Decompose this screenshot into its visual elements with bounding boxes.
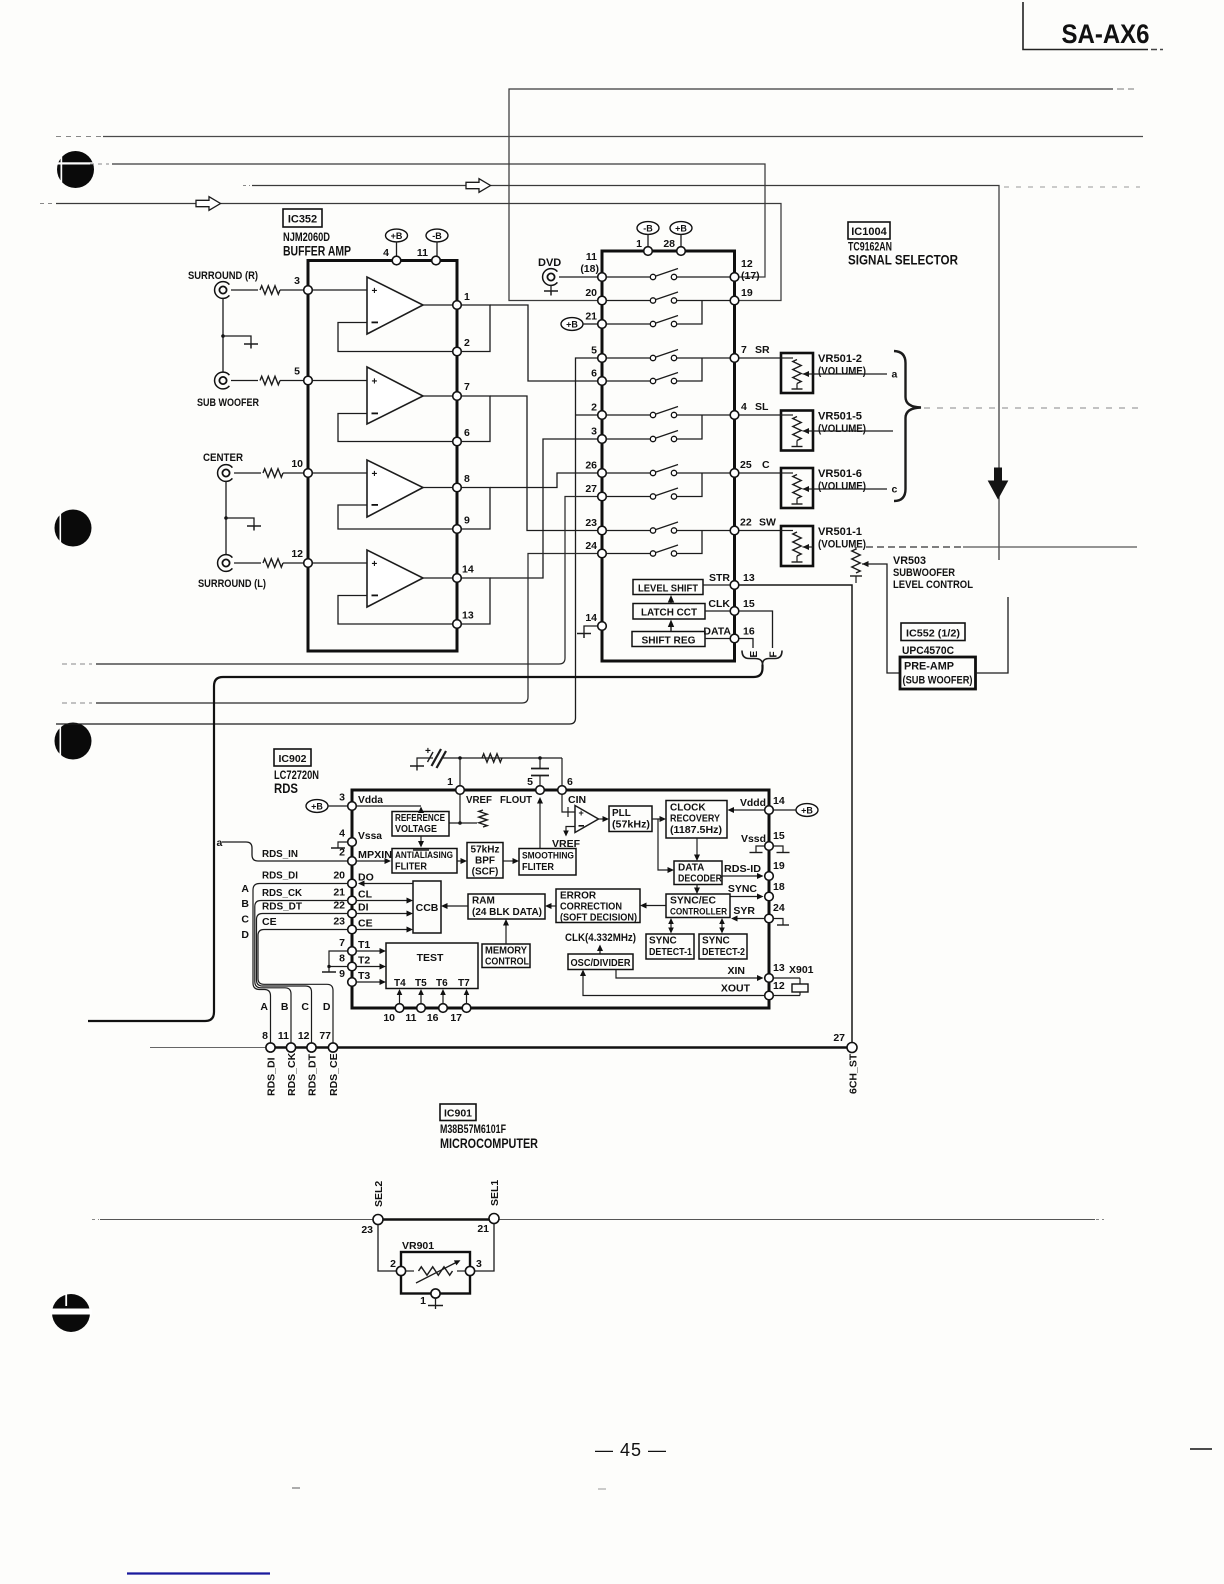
IC1004 right pin 19 [730, 287, 753, 305]
svg-text:1: 1 [636, 238, 642, 250]
SMOOTHING FLITER box [519, 849, 576, 876]
wire buffer pin7 to IC1004 pin 23 [490, 396, 598, 531]
svg-text:FLOUT: FLOUT [500, 794, 533, 806]
dashed net line from brace [924, 407, 1140, 409]
wire output U1b to pin [423, 395, 453, 397]
IC1004 pin 28 [663, 238, 685, 255]
wire bundle B RDS_CK [255, 901, 348, 1044]
svg-text:14: 14 [773, 795, 785, 807]
wire resistor to IC352 pin 10 [283, 472, 304, 474]
CCB box [413, 881, 441, 933]
arrow sync ec to error correction [640, 903, 666, 909]
IC1004 left pin 26 [585, 460, 606, 478]
IC902 pin 1 VREF [447, 776, 492, 806]
svg-text:7: 7 [339, 937, 345, 949]
label VR503 SUBWOOFER LEVEL CONTROL [893, 555, 973, 591]
CLOCK RECOVERY box [666, 801, 727, 839]
node labels A B C D upper [241, 883, 249, 941]
IC902 pin 4 Vssa with ground [331, 828, 382, 849]
svg-text:(VOLUME): (VOLUME) [818, 539, 866, 551]
svg-text:VR501-1: VR501-1 [818, 526, 862, 538]
svg-text:RDS_CK: RDS_CK [286, 1052, 298, 1096]
wire SURROUND R to pin 3 [231, 289, 258, 291]
svg-text:RDS_DT: RDS_DT [307, 1053, 319, 1096]
switch row pin 26 inside IC1004 [607, 465, 731, 476]
svg-text:BPF: BPF [475, 856, 495, 867]
wire SURROUND L to pin 12 [234, 562, 261, 564]
svg-text:DECODER: DECODER [678, 874, 723, 885]
arrow memory control to RAM [503, 919, 509, 944]
svg-text:24: 24 [773, 902, 785, 914]
svg-text:CIN: CIN [568, 794, 586, 806]
bus pin 27 6CH_ST [833, 1032, 859, 1094]
svg-text:24: 24 [585, 540, 597, 552]
svg-text:SURROUND (L): SURROUND (L) [198, 578, 266, 590]
IC902 pin 8 T2 [339, 953, 386, 971]
svg-text:C: C [241, 914, 249, 926]
svg-text:21: 21 [333, 887, 345, 899]
wire wiper VR501-6 [813, 488, 887, 490]
svg-text:20: 20 [333, 870, 345, 882]
svg-text:6: 6 [464, 427, 470, 439]
svg-text:77: 77 [319, 1030, 331, 1042]
IC1004 left pin 6 [591, 368, 606, 386]
thick microcomputer bus wire [266, 1046, 848, 1049]
svg-text:+: + [372, 559, 378, 570]
wire pin 23 down to VR901 pin 2 [378, 1225, 397, 1272]
bus pin 8 [262, 1030, 277, 1096]
svg-text:(SOFT DECISION): (SOFT DECISION) [560, 913, 637, 924]
registration mark mid-left 2 [55, 723, 92, 760]
SHIFT REG box [632, 632, 705, 647]
svg-text:13: 13 [743, 572, 755, 584]
svg-text:(18): (18) [580, 263, 599, 275]
volume pot VR501-1 [739, 526, 813, 566]
svg-text:T5: T5 [415, 978, 427, 989]
svg-text:DVD: DVD [538, 257, 561, 269]
registration mark top-left [56, 151, 95, 188]
blue underline mark [127, 1572, 270, 1574]
svg-text:STR: STR [709, 572, 730, 584]
svg-text:25: 25 [740, 459, 752, 471]
svg-text:DATA: DATA [678, 863, 704, 874]
wire feedback U1b minus input [338, 414, 453, 442]
ERROR CORRECTION box [556, 889, 640, 924]
svg-text:(17): (17) [741, 270, 760, 282]
switch row pin 23 inside IC1004 [607, 522, 731, 533]
connector SUB WOOFER [197, 372, 259, 409]
power +B at IC1004 pin 28 [670, 222, 692, 247]
arrow LATCH CCT to LEVEL SHIFT [668, 595, 674, 604]
switch row pin 3 inside IC1004 [607, 415, 703, 442]
IC352 pin 6 [453, 427, 470, 446]
arrow MPXIN to antialiasing filter [357, 858, 392, 864]
svg-text:-B: -B [432, 231, 442, 241]
svg-text:TEST: TEST [417, 952, 444, 964]
svg-text:(57kHz): (57kHz) [612, 820, 650, 831]
wire wiper VR501-1 [866, 546, 963, 548]
VR901 variable resistor [406, 1260, 466, 1283]
svg-text:8: 8 [262, 1030, 268, 1042]
brace joining E and F [742, 651, 782, 665]
svg-text:DO: DO [358, 872, 374, 884]
wire bracket pin14-pin13 [462, 578, 491, 624]
svg-text:ERROR: ERROR [560, 891, 597, 902]
svg-text:VR501-6: VR501-6 [818, 468, 862, 480]
svg-text:19: 19 [773, 860, 785, 872]
wire output U1d to pin [423, 577, 453, 579]
svg-text:VOLTAGE: VOLTAGE [395, 824, 437, 835]
arrow SHIFT REG to LATCH CCT [668, 620, 674, 632]
ground for VREF capacitor [410, 758, 428, 771]
wire top bus line 4 with corner down to sub woofer feed [243, 186, 1140, 561]
ground node between CENTER and SURROUND L [224, 481, 261, 555]
svg-text:T7: T7 [458, 978, 470, 989]
registration mark bottom-left [50, 1292, 92, 1332]
svg-text:15: 15 [773, 830, 785, 842]
VR901 pin 1 with ground [420, 1289, 443, 1309]
IC901 label box [440, 1104, 476, 1121]
svg-text:SEL1: SEL1 [489, 1180, 501, 1206]
svg-text:5: 5 [527, 776, 533, 788]
electrolytic capacitor at VREF [425, 746, 460, 768]
svg-text:NJM2060D: NJM2060D [283, 232, 330, 244]
arrow Vddd to clock recovery [728, 807, 765, 813]
wire Vdda to reference voltage arrow [357, 806, 425, 813]
svg-text:+: + [372, 377, 378, 388]
svg-text:9: 9 [464, 515, 470, 527]
svg-text:+: + [425, 746, 431, 757]
svg-text:FLITER: FLITER [395, 862, 428, 873]
svg-text:RAM: RAM [472, 896, 495, 907]
svg-text:T6: T6 [436, 978, 448, 989]
IC1004 left pin 20 [585, 287, 606, 305]
OSC/DIVIDER box [568, 954, 633, 970]
arrow OSC to CLK label [597, 945, 603, 955]
svg-text:CLOCK: CLOCK [670, 803, 706, 814]
capacitor FLOUT [531, 758, 562, 786]
svg-text:C: C [301, 1001, 309, 1013]
IC1004 label box [848, 222, 890, 239]
svg-text:14: 14 [585, 612, 597, 624]
brace group a b c nets [894, 351, 921, 501]
wire IC1004 pin 5 / pin 2 tie down to left bus [56, 358, 598, 724]
wire bundle C RDS_DT [257, 914, 348, 1044]
PRE-AMP SUB WOOFER box [900, 657, 976, 689]
wire CL to CCB [357, 898, 414, 904]
IC902 pin 6 CIN [558, 776, 586, 806]
svg-text:MICROCOMPUTER: MICROCOMPUTER [440, 1136, 538, 1151]
wire wiper VR501-2 [813, 373, 887, 375]
svg-text:VR501-2: VR501-2 [818, 353, 862, 365]
LATCH CCT box [633, 604, 705, 620]
IC1004 left pin 21 [585, 311, 606, 329]
IC902 pin 15 Vssd with grounds [741, 830, 790, 853]
svg-text:IC902: IC902 [278, 753, 306, 765]
svg-text:2: 2 [591, 402, 597, 414]
IC902 pin 21 CL [333, 887, 372, 905]
label VR501-6 (VOLUME) [818, 468, 866, 493]
IC352 pin 2 [453, 337, 470, 356]
svg-text:X901: X901 [789, 964, 814, 976]
switch row pin 27 inside IC1004 [607, 473, 703, 499]
svg-text:4: 4 [741, 401, 747, 413]
IC1004 right pin 16 DATA [703, 626, 754, 643]
SYNC DETECT-1 box [646, 934, 694, 959]
resistor input SUB WOOFER [260, 376, 280, 384]
svg-text:T3: T3 [358, 970, 370, 982]
IC352 pin 10 [291, 458, 312, 477]
IC352 label box [283, 209, 322, 227]
wire bracket pin7-pin6 [462, 396, 491, 442]
svg-text:14: 14 [462, 564, 474, 576]
op-amp U1d of IC352 [367, 550, 423, 607]
IC901 pin 21 SEL1 [477, 1180, 501, 1235]
IC902 pin 13 XIN and wire from OSC [616, 962, 785, 982]
IC902 bottom pin 10 [383, 989, 403, 1024]
stray scan marks [292, 1449, 1212, 1489]
svg-text:3: 3 [591, 426, 597, 438]
arrow reference voltage to ground [413, 836, 429, 850]
volume pot VR501-2 [739, 353, 813, 393]
svg-text:PRE-AMP: PRE-AMP [904, 661, 954, 673]
svg-text:6: 6 [591, 368, 597, 380]
wire buffer pin1 to IC1004 pin 6 [490, 305, 598, 381]
svg-text:T1: T1 [358, 939, 370, 951]
wire feedback U1d minus input [338, 596, 453, 625]
label VR501-2 (VOLUME) [818, 353, 866, 378]
svg-text:Vdda: Vdda [358, 794, 383, 806]
IC902 pin 18 SYNC [728, 881, 785, 901]
svg-text:17: 17 [450, 1012, 462, 1024]
svg-text:RDS-ID: RDS-ID [724, 863, 761, 875]
IC902 bottom pin 17 [450, 989, 470, 1024]
svg-text:5: 5 [294, 366, 300, 378]
IC902 pin 14 Vddd with +B [740, 795, 818, 816]
switch row pin 11 inside IC1004 [607, 269, 731, 280]
wire top bus line 1 to IC1004 pin 20 [509, 89, 1134, 301]
comparator minus input VREF [552, 827, 581, 851]
svg-text:SW: SW [759, 517, 776, 529]
IC1004 pin 1 [636, 238, 652, 255]
svg-text:A: A [241, 883, 249, 895]
wire CE to CCB [357, 927, 414, 933]
svg-text:(SUB WOOFER): (SUB WOOFER) [903, 675, 973, 687]
IC352 pin 12 [291, 548, 312, 567]
IC352 pin 13 [453, 610, 474, 629]
svg-text:8: 8 [464, 473, 470, 485]
svg-text:28: 28 [663, 238, 675, 250]
svg-text:RDS_DT: RDS_DT [262, 901, 303, 913]
wire VREF top node [458, 756, 542, 785]
svg-text:-B: -B [643, 223, 653, 233]
volume pot VR501-5 [739, 411, 813, 451]
svg-text:RDS_IN: RDS_IN [262, 848, 298, 860]
labels RDS_DI RDS_CK RDS_DT CE left [262, 870, 303, 929]
resistor input CENTER [263, 469, 283, 477]
wire into PRE-AMP right side [976, 597, 1009, 673]
svg-text:RDS: RDS [274, 780, 298, 796]
switch row pin 6 inside IC1004 [607, 358, 703, 384]
svg-text:4: 4 [339, 828, 345, 840]
svg-text:Vddd: Vddd [740, 797, 766, 809]
volume pot VR501-6 [739, 468, 813, 508]
switch row pin 24 inside IC1004 [607, 531, 703, 557]
svg-text:SUBWOOFER: SUBWOOFER [893, 567, 955, 579]
VR901 pin 3 [465, 1258, 482, 1276]
svg-text:CLK: CLK [708, 598, 730, 610]
IC901 pin 23 SEL2 [361, 1181, 385, 1236]
connector CENTER [203, 452, 243, 481]
svg-text:SYR: SYR [733, 905, 755, 917]
IC552 label box [901, 623, 965, 641]
svg-text:9: 9 [339, 968, 345, 980]
ground node between SURROUND R and SUB WOOFER [221, 298, 258, 372]
svg-text:D: D [241, 929, 249, 941]
signal flow arrow on line 5 [196, 197, 221, 211]
svg-text:2: 2 [464, 337, 470, 349]
svg-text:21: 21 [585, 311, 597, 323]
wire resistor to IC352 pin 12 [283, 562, 304, 564]
svg-text:IC552 (1/2): IC552 (1/2) [906, 628, 960, 640]
wire DVD to IC1004 pin 11 [559, 276, 598, 278]
big down arrow on sub woofer feed line [989, 468, 1008, 499]
arrow comparator to PLL [599, 816, 610, 822]
svg-text:SMOOTHING: SMOOTHING [522, 851, 574, 862]
comparator op-amp in IC902 [575, 806, 599, 833]
thick wire between pin 23 and pin 21 [382, 1218, 490, 1220]
svg-text:T2: T2 [358, 955, 370, 967]
svg-text:11: 11 [586, 251, 597, 263]
IC902 pin 12 XOUT and wire to OSC [580, 970, 800, 1000]
wire pin 13 STR down to microcomputer bus pin 27 [739, 585, 852, 1043]
IC352 body box [308, 261, 457, 652]
svg-text:CLK(4.332MHz): CLK(4.332MHz) [565, 932, 636, 944]
svg-text:DI: DI [358, 902, 369, 914]
svg-text:REFERENCE: REFERENCE [395, 813, 445, 824]
svg-text:A: A [260, 1001, 268, 1013]
switch row pin 21 inside IC1004 [607, 301, 703, 327]
svg-text:6CH_ST: 6CH_ST [848, 1053, 860, 1094]
wire SUB WOOFER to pin 5 [231, 380, 258, 382]
wire pin1 internal vref node [449, 795, 477, 825]
svg-text:12: 12 [298, 1030, 310, 1042]
svg-text:12: 12 [291, 548, 303, 560]
VR901 box [401, 1240, 470, 1294]
wire + input U1c [313, 472, 368, 474]
IC1004 right pin 4 SL [730, 401, 769, 419]
IC902 bottom pin 11 [405, 989, 425, 1024]
svg-text:IC352: IC352 [288, 214, 317, 226]
svg-text:20: 20 [585, 287, 597, 299]
svg-text:RECOVERY: RECOVERY [670, 814, 720, 825]
svg-text:E: E [749, 651, 760, 658]
svg-text:IC901: IC901 [444, 1108, 472, 1120]
svg-text:RDS_CK: RDS_CK [262, 887, 302, 899]
op-amp U1a of IC352 [367, 277, 423, 334]
IC1004 left pin 27 [585, 483, 606, 501]
svg-text:RDS_DI: RDS_DI [266, 1057, 278, 1096]
svg-text:+B: +B [566, 319, 578, 329]
svg-text:SR: SR [755, 344, 770, 356]
svg-text:7: 7 [464, 381, 470, 393]
title frame [1023, 2, 1163, 50]
wire thin lead-in of microcomputer bus [150, 1047, 266, 1049]
IC902 pin 9 T3 [339, 968, 386, 986]
svg-text:3: 3 [339, 792, 345, 804]
RAM box [468, 894, 545, 919]
svg-text:PLL: PLL [612, 808, 631, 819]
svg-text:+B: +B [801, 805, 813, 815]
svg-text:6: 6 [567, 776, 573, 788]
wire buffer pin14 to IC1004 pin 3 [490, 439, 598, 578]
IC1004 left pin 5 [591, 345, 606, 363]
IC1004 left pin 11 [580, 251, 606, 281]
resistor VREF to FLOUT [482, 754, 502, 762]
arrow data decoder down from clock recovery [694, 838, 700, 861]
power +B at IC352 pin 4 [386, 229, 408, 256]
SYNC DETECT-2 box [699, 934, 747, 959]
svg-text:18: 18 [773, 881, 785, 893]
IC1004 right pin 13 STR [709, 572, 755, 589]
svg-text:DATA: DATA [703, 626, 731, 638]
arrow antialiasing to BPF [457, 858, 467, 864]
svg-text:27: 27 [833, 1032, 845, 1044]
svg-text:M38B57M6101F: M38B57M6101F [440, 1124, 506, 1136]
57kHz BPF box [467, 843, 503, 879]
IC352 output pin 8 [453, 473, 470, 492]
long horizontal wire through SEL pins [92, 1219, 1104, 1221]
svg-text:(VOLUME): (VOLUME) [818, 481, 866, 493]
IC1004 body box [602, 251, 735, 661]
svg-text:SURROUND (R): SURROUND (R) [188, 270, 258, 282]
IC902 pin 19 RDS-ID [722, 860, 785, 880]
IC352 output pin 7 [453, 381, 470, 400]
resistor input SURROUND R [260, 286, 280, 294]
svg-text:19: 19 [741, 287, 753, 299]
svg-text:23: 23 [585, 517, 597, 529]
VR901 pin 2 [390, 1258, 405, 1276]
op-amp U1c of IC352 [367, 460, 423, 517]
IC1004 right pin 12 (17) [730, 258, 759, 282]
svg-text:CENTER: CENTER [203, 452, 243, 464]
MEMORY CONTROL box [482, 944, 530, 968]
svg-text:15: 15 [743, 598, 755, 610]
IC902 pin 20 DO [333, 870, 373, 888]
IC1004 right pin 15 CLK [708, 598, 754, 615]
svg-text:UPC4570C: UPC4570C [902, 645, 954, 657]
svg-text:a: a [217, 837, 223, 849]
arrow RAM to CCB [441, 903, 468, 909]
wire output U1c to pin [423, 487, 453, 489]
wire top bus line 5 to IC1004 pin 19 [40, 204, 781, 301]
svg-text:MEMORY: MEMORY [485, 946, 527, 957]
node labels A B C D lower [260, 1001, 331, 1013]
svg-text:CL: CL [358, 889, 373, 901]
IC352 output pin 14 [453, 564, 474, 583]
svg-text:1: 1 [447, 776, 453, 788]
IC1004 left pin 3 [591, 426, 606, 444]
svg-text:XOUT: XOUT [721, 983, 751, 995]
arrow data decoder to sync ec [694, 885, 700, 895]
connector DVD [538, 257, 561, 296]
bus pin 12 [298, 1030, 319, 1096]
wire pin 16 DATA to connector E [739, 639, 753, 649]
svg-text:B: B [241, 898, 249, 910]
svg-text:+B: +B [311, 801, 323, 811]
svg-text:22: 22 [740, 517, 752, 529]
IC1004 left pin 24 [585, 540, 606, 558]
